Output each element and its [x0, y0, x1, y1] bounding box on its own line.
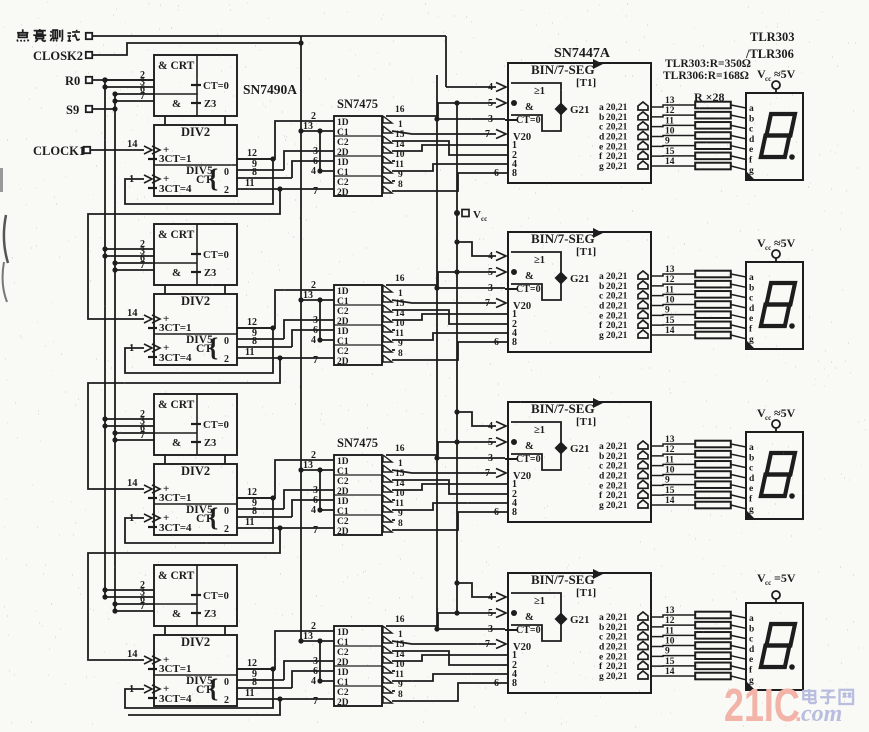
svg-text:20,21: 20,21	[606, 321, 628, 331]
svg-text:1: 1	[398, 630, 403, 640]
svg-text:11: 11	[395, 670, 404, 680]
svg-text:12: 12	[665, 445, 675, 455]
svg-text:20,21: 20,21	[606, 642, 628, 652]
svg-text:cc: cc	[765, 414, 771, 422]
svg-text:CT=0: CT=0	[516, 454, 541, 465]
svg-text:12: 12	[247, 148, 257, 159]
svg-text:3CT=4: 3CT=4	[159, 693, 192, 705]
svg-text:cc: cc	[765, 579, 771, 587]
svg-text:20,21: 20,21	[606, 501, 628, 511]
svg-text:a: a	[749, 273, 754, 283]
svg-text:7: 7	[313, 186, 318, 197]
svg-text:C2: C2	[337, 517, 349, 527]
svg-text:a: a	[749, 443, 754, 453]
svg-text:e: e	[749, 484, 753, 494]
svg-text:11: 11	[245, 688, 254, 699]
svg-text:b: b	[749, 453, 754, 463]
svg-text:G21: G21	[570, 614, 590, 626]
svg-text:14: 14	[665, 326, 675, 336]
svg-text:1D: 1D	[337, 668, 349, 678]
svg-text:g: g	[599, 162, 604, 172]
svg-text:6: 6	[494, 678, 499, 689]
svg-text:BIN/7-SEG: BIN/7-SEG	[531, 572, 595, 587]
svg-text:3CT=1: 3CT=1	[159, 322, 192, 334]
svg-text:20,21: 20,21	[606, 672, 628, 682]
svg-text:{: {	[208, 674, 218, 703]
svg-text:c: c	[749, 464, 753, 474]
svg-text:11: 11	[665, 626, 674, 636]
svg-text:4: 4	[311, 505, 316, 516]
svg-text:16: 16	[395, 105, 405, 115]
svg-text:7: 7	[313, 696, 318, 707]
svg-text:C2: C2	[337, 178, 349, 188]
svg-text:7: 7	[485, 468, 490, 479]
svg-text:TLR303:R=350Ω: TLR303:R=350Ω	[665, 58, 751, 70]
svg-text:C2: C2	[337, 138, 349, 148]
svg-text:CT=0: CT=0	[516, 115, 541, 126]
svg-text:12: 12	[665, 616, 675, 626]
svg-text:≥1: ≥1	[534, 86, 545, 97]
svg-text:V: V	[473, 209, 481, 221]
svg-text:≥1: ≥1	[534, 596, 545, 607]
svg-text:10: 10	[665, 127, 675, 137]
svg-text:BIN/7-SEG: BIN/7-SEG	[531, 401, 595, 416]
svg-text:1: 1	[398, 120, 403, 130]
svg-text:0: 0	[224, 506, 229, 517]
svg-text:TLR303: TLR303	[750, 30, 794, 44]
svg-text:CLOCK1: CLOCK1	[33, 144, 85, 158]
svg-text:C2: C2	[337, 347, 349, 357]
svg-text:8: 8	[512, 337, 517, 348]
svg-text:≥1: ≥1	[534, 255, 545, 266]
svg-text:8: 8	[252, 336, 257, 347]
svg-text:11: 11	[395, 160, 404, 170]
svg-text:2: 2	[224, 185, 229, 196]
svg-text:20,21: 20,21	[606, 652, 628, 662]
svg-text:Z3: Z3	[204, 609, 216, 620]
svg-text:0: 0	[224, 336, 229, 347]
svg-text:20,21: 20,21	[606, 103, 628, 113]
svg-text:7: 7	[485, 298, 490, 309]
svg-text:DIV2: DIV2	[181, 294, 210, 308]
svg-text:c: c	[749, 125, 753, 135]
svg-text:20,21: 20,21	[606, 152, 628, 162]
svg-text:BIN/7-SEG: BIN/7-SEG	[531, 231, 595, 246]
svg-text:20,21: 20,21	[606, 633, 628, 643]
svg-text:c: c	[599, 292, 603, 302]
svg-text:1D: 1D	[337, 158, 349, 168]
svg-text:14: 14	[127, 649, 138, 660]
svg-text:G21: G21	[570, 104, 590, 116]
svg-text:8: 8	[252, 677, 257, 688]
svg-text:12: 12	[665, 106, 675, 116]
svg-text:[T1]: [T1]	[576, 416, 596, 428]
svg-text:15: 15	[665, 316, 675, 326]
svg-text:[T1]: [T1]	[576, 77, 596, 89]
svg-text:CT=0: CT=0	[516, 625, 541, 636]
svg-text:R ×28: R ×28	[694, 90, 725, 104]
svg-text:d: d	[749, 645, 755, 655]
svg-text:c: c	[599, 462, 603, 472]
svg-text:g: g	[749, 166, 754, 176]
svg-text:14: 14	[665, 157, 675, 167]
svg-text:DIV2: DIV2	[181, 125, 210, 139]
svg-text:2: 2	[224, 695, 229, 706]
svg-text:10: 10	[665, 296, 675, 306]
svg-text:S9: S9	[66, 103, 79, 117]
svg-text:7: 7	[140, 430, 145, 441]
svg-text:20,21: 20,21	[606, 462, 628, 472]
svg-text:20,21: 20,21	[606, 623, 628, 633]
svg-text:1D: 1D	[337, 118, 349, 128]
svg-text:15: 15	[665, 486, 675, 496]
svg-text:e: e	[749, 655, 753, 665]
svg-text:SN7475: SN7475	[337, 436, 378, 450]
svg-text:{: {	[208, 164, 218, 193]
svg-text:14: 14	[127, 478, 138, 489]
svg-text:Z3: Z3	[204, 268, 216, 279]
svg-text:11: 11	[245, 517, 254, 528]
svg-text:d: d	[599, 132, 605, 142]
svg-text:1D: 1D	[337, 327, 349, 337]
svg-text:{: {	[208, 503, 218, 532]
svg-text:b: b	[599, 282, 604, 292]
svg-text:CT=0: CT=0	[203, 250, 229, 261]
svg-text:Z3: Z3	[204, 438, 216, 449]
svg-text:14: 14	[127, 139, 138, 150]
svg-text:20,21: 20,21	[606, 442, 628, 452]
svg-text:20,21: 20,21	[606, 123, 628, 133]
svg-text:13: 13	[665, 606, 675, 616]
svg-text:≈5V: ≈5V	[774, 406, 796, 420]
svg-text:a: a	[749, 614, 754, 624]
svg-text:a: a	[599, 442, 604, 452]
svg-text:20,21: 20,21	[606, 272, 628, 282]
svg-text:b: b	[749, 624, 754, 634]
svg-text:2D: 2D	[337, 527, 349, 537]
svg-text:& CRT: & CRT	[158, 60, 195, 72]
svg-text:b: b	[599, 623, 604, 633]
svg-text:8: 8	[398, 349, 403, 359]
svg-text:3CT=1: 3CT=1	[159, 153, 192, 165]
svg-text:SN7447A: SN7447A	[554, 46, 611, 61]
svg-text:b: b	[749, 114, 754, 124]
svg-text:20,21: 20,21	[606, 132, 628, 142]
svg-text:3CT=4: 3CT=4	[159, 183, 192, 195]
svg-text:cc: cc	[765, 244, 771, 252]
svg-text:8: 8	[252, 506, 257, 517]
svg-text:e: e	[599, 142, 603, 152]
svg-text:3CT=1: 3CT=1	[159, 492, 192, 504]
svg-text:b: b	[749, 283, 754, 293]
svg-text:a: a	[599, 613, 604, 623]
svg-text:9: 9	[665, 306, 670, 316]
svg-text:11: 11	[665, 285, 674, 295]
svg-text:15: 15	[665, 147, 675, 157]
svg-text:20,21: 20,21	[606, 282, 628, 292]
svg-text:1: 1	[398, 289, 403, 299]
svg-text:&: &	[172, 437, 181, 449]
svg-text:4: 4	[311, 335, 316, 346]
svg-text:b: b	[599, 452, 604, 462]
svg-text:8: 8	[512, 678, 517, 689]
svg-text:11: 11	[395, 499, 404, 509]
svg-text:14: 14	[665, 496, 675, 506]
svg-text:g: g	[749, 335, 754, 345]
svg-text:7: 7	[313, 355, 318, 366]
svg-text:20,21: 20,21	[606, 662, 628, 672]
svg-text:G21: G21	[570, 443, 590, 455]
svg-text:11: 11	[395, 329, 404, 339]
svg-text:2: 2	[224, 524, 229, 535]
svg-text:/TLR306: /TLR306	[745, 47, 794, 61]
svg-text:BIN/7-SEG: BIN/7-SEG	[531, 62, 595, 77]
svg-text:11: 11	[245, 178, 254, 189]
svg-text:g: g	[749, 505, 754, 515]
svg-text:≈5V: ≈5V	[774, 236, 796, 250]
svg-text:8: 8	[512, 507, 517, 518]
svg-text:12: 12	[665, 275, 675, 285]
svg-text:C2: C2	[337, 477, 349, 487]
svg-text:13: 13	[665, 265, 675, 275]
svg-text:e: e	[599, 652, 603, 662]
svg-text:15: 15	[665, 657, 675, 667]
svg-text:11: 11	[245, 347, 254, 358]
svg-text:&: &	[525, 102, 534, 113]
svg-text:&: &	[525, 271, 534, 282]
svg-text:a: a	[599, 272, 604, 282]
svg-text:&: &	[172, 267, 181, 279]
svg-text:3CT=4: 3CT=4	[159, 352, 192, 364]
svg-text:d: d	[749, 474, 755, 484]
svg-text:cc: cc	[765, 75, 771, 83]
svg-text:7: 7	[140, 260, 145, 271]
svg-text:3CT=1: 3CT=1	[159, 663, 192, 675]
svg-text:d: d	[599, 301, 605, 311]
svg-text:CT=0: CT=0	[516, 284, 541, 295]
svg-text:7: 7	[485, 129, 490, 140]
svg-text:b: b	[599, 113, 604, 123]
svg-text:& CRT: & CRT	[158, 229, 195, 241]
svg-text:e: e	[599, 481, 603, 491]
svg-text:=5V: =5V	[774, 571, 796, 585]
svg-text:g: g	[599, 331, 604, 341]
svg-text:g: g	[599, 672, 604, 682]
svg-text:& CRT: & CRT	[158, 399, 195, 411]
svg-text:20,21: 20,21	[606, 113, 628, 123]
svg-text:6: 6	[494, 337, 499, 348]
svg-text:9: 9	[665, 137, 670, 147]
svg-text:d: d	[599, 471, 605, 481]
svg-text:≥1: ≥1	[534, 425, 545, 436]
svg-text:TLR306:R=168Ω: TLR306:R=168Ω	[663, 70, 749, 82]
svg-text:4: 4	[311, 676, 316, 687]
svg-text:1D: 1D	[337, 287, 349, 297]
svg-text:&: &	[525, 441, 534, 452]
svg-text:DIV2: DIV2	[181, 464, 210, 478]
svg-text:14: 14	[665, 667, 675, 677]
svg-text:DIV2: DIV2	[181, 635, 210, 649]
svg-text:10: 10	[665, 637, 675, 647]
svg-text:e: e	[749, 145, 753, 155]
svg-text:1D: 1D	[337, 628, 349, 638]
svg-text:2D: 2D	[337, 698, 349, 708]
svg-text:R0: R0	[65, 74, 80, 88]
svg-text:12: 12	[247, 487, 257, 498]
svg-text:{: {	[208, 333, 218, 362]
svg-text:c: c	[599, 123, 603, 133]
svg-text:20,21: 20,21	[606, 613, 628, 623]
svg-text:20,21: 20,21	[606, 452, 628, 462]
svg-text:≈5V: ≈5V	[774, 67, 796, 81]
svg-text:1D: 1D	[337, 497, 349, 507]
svg-text:11: 11	[665, 116, 674, 126]
svg-text:12: 12	[247, 658, 257, 669]
svg-text:e: e	[749, 314, 753, 324]
svg-text:c: c	[749, 635, 753, 645]
svg-text:7: 7	[140, 91, 145, 102]
svg-text:g: g	[599, 501, 604, 511]
svg-text:c: c	[749, 294, 753, 304]
svg-text:[T1]: [T1]	[576, 587, 596, 599]
svg-text:20,21: 20,21	[606, 292, 628, 302]
svg-text:1: 1	[398, 459, 403, 469]
svg-text:16: 16	[395, 274, 405, 284]
svg-text:1D: 1D	[337, 457, 349, 467]
svg-text:6: 6	[494, 168, 499, 179]
svg-text:8: 8	[512, 168, 517, 179]
svg-text:7: 7	[313, 525, 318, 536]
svg-text:20,21: 20,21	[606, 162, 628, 172]
svg-text:11: 11	[665, 455, 674, 465]
svg-text:20,21: 20,21	[606, 311, 628, 321]
svg-text:13: 13	[665, 96, 675, 106]
svg-text:20,21: 20,21	[606, 491, 628, 501]
svg-text:a: a	[599, 103, 604, 113]
svg-text:16: 16	[395, 615, 405, 625]
svg-text:8: 8	[398, 519, 403, 529]
svg-text:7: 7	[485, 639, 490, 650]
svg-text:&: &	[172, 98, 181, 110]
svg-text:12: 12	[247, 317, 257, 328]
svg-text:Z3: Z3	[204, 99, 216, 110]
svg-text:20,21: 20,21	[606, 481, 628, 491]
svg-text:3CT=4: 3CT=4	[159, 522, 192, 534]
svg-text:c: c	[599, 633, 603, 643]
svg-text:2: 2	[224, 354, 229, 365]
svg-text:CT=0: CT=0	[203, 81, 229, 92]
svg-text:C2: C2	[337, 648, 349, 658]
svg-text:8: 8	[252, 167, 257, 178]
svg-text:9: 9	[665, 647, 670, 657]
svg-text:cc: cc	[481, 215, 487, 223]
svg-text:e: e	[599, 311, 603, 321]
svg-text:21IC: 21IC	[724, 680, 800, 731]
svg-text:d: d	[749, 304, 755, 314]
svg-text:a: a	[749, 104, 754, 114]
svg-text:2D: 2D	[337, 357, 349, 367]
svg-text:G21: G21	[570, 273, 590, 285]
svg-text:20,21: 20,21	[606, 471, 628, 481]
svg-text:16: 16	[395, 444, 405, 454]
svg-text:6: 6	[494, 507, 499, 518]
svg-text:&: &	[525, 612, 534, 623]
svg-text:SN7490A: SN7490A	[243, 82, 297, 97]
svg-text:10: 10	[665, 466, 675, 476]
svg-text:& CRT: & CRT	[158, 570, 195, 582]
svg-text:0: 0	[224, 677, 229, 688]
svg-text:20,21: 20,21	[606, 142, 628, 152]
svg-text:d: d	[749, 135, 755, 145]
svg-text:20,21: 20,21	[606, 301, 628, 311]
svg-text:4: 4	[311, 166, 316, 177]
svg-text:C2: C2	[337, 688, 349, 698]
svg-text:&: &	[172, 608, 181, 620]
svg-text:2D: 2D	[337, 188, 349, 198]
svg-text:CLOSK2: CLOSK2	[33, 49, 83, 63]
svg-text:CT=0: CT=0	[203, 420, 229, 431]
svg-text:d: d	[599, 642, 605, 652]
svg-text:8: 8	[398, 180, 403, 190]
svg-text:SN7475: SN7475	[337, 97, 378, 111]
svg-text:20,21: 20,21	[606, 331, 628, 341]
svg-text:0: 0	[224, 167, 229, 178]
svg-text:CT=0: CT=0	[203, 591, 229, 602]
svg-text:14: 14	[127, 308, 138, 319]
svg-text:9: 9	[665, 476, 670, 486]
svg-text:13: 13	[665, 435, 675, 445]
